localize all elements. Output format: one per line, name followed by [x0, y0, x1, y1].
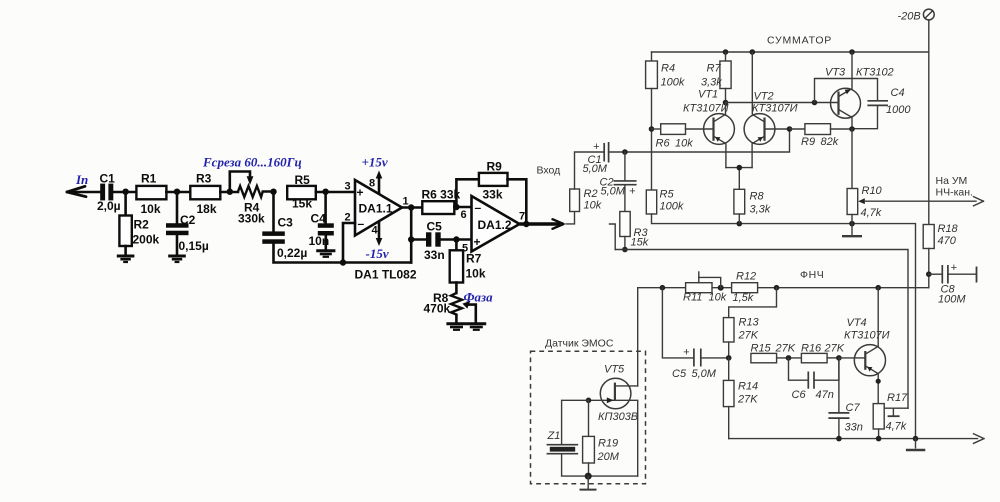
svg-text:ФНЧ: ФНЧ — [800, 269, 824, 281]
node C5 tap — [408, 236, 414, 242]
svg-text:3,3k: 3,3k — [701, 77, 722, 89]
svg-text:R19: R19 — [598, 438, 618, 450]
svg-text:СУММАТОР: СУММАТОР — [767, 35, 832, 47]
node pin6/R9 — [453, 204, 459, 210]
svg-text:82k: 82k — [821, 136, 839, 148]
svg-text:8: 8 — [369, 178, 375, 190]
bottom rail with arrow — [729, 434, 984, 444]
svg-text:КТ3107И: КТ3107И — [752, 103, 798, 115]
svg-text:10k: 10k — [709, 292, 727, 304]
resistor R6 10k — [652, 124, 714, 150]
resistor R10 4,7k (trimmer) — [847, 185, 983, 224]
wire C1 node to VT2 base — [609, 129, 790, 152]
svg-text:10k: 10k — [466, 267, 486, 281]
svg-text:–: – — [475, 201, 482, 215]
svg-text:КТ3102: КТ3102 — [856, 67, 894, 79]
node R4/R6/R5 — [649, 126, 655, 132]
transistor VT1 KT3107I — [683, 89, 734, 168]
resistor R7 3,3k — [701, 52, 731, 103]
svg-text:R9: R9 — [801, 136, 815, 148]
svg-text:КТ3107И: КТ3107И — [844, 330, 890, 342]
svg-text:0,15µ: 0,15µ — [179, 239, 209, 253]
resistor R9 82k — [790, 124, 853, 148]
node R9/output — [523, 221, 529, 227]
piezo Z1 — [547, 430, 579, 454]
svg-text:+: + — [683, 347, 690, 359]
svg-text:15k: 15k — [292, 197, 312, 211]
svg-text:27K: 27K — [775, 343, 796, 355]
svg-text:R7: R7 — [466, 252, 482, 266]
svg-text:R12: R12 — [736, 271, 756, 283]
svg-text:100k: 100k — [661, 77, 685, 89]
svg-text:3: 3 — [345, 181, 351, 193]
svg-text:VT5: VT5 — [604, 364, 625, 376]
svg-text:R2: R2 — [134, 218, 150, 232]
ground EMOS — [580, 476, 597, 490]
resistor R13 27K — [723, 317, 759, 358]
transistor VT2 KT3107I — [744, 52, 798, 168]
svg-text:R15: R15 — [751, 343, 772, 355]
svg-text:47n: 47n — [816, 389, 834, 401]
svg-text:33k: 33k — [483, 187, 503, 201]
potentiometer R8 470k + Faza — [424, 283, 494, 323]
node R8 bottom — [737, 221, 743, 227]
op-amp DA1.1 — [345, 178, 409, 237]
svg-text:Fсреза 60...160Гц: Fсреза 60...160Гц — [202, 154, 302, 169]
svg-text:470k: 470k — [424, 302, 451, 316]
svg-text:C4: C4 — [891, 87, 905, 99]
dashed box — [531, 351, 646, 484]
resistor R16 27K — [801, 343, 845, 363]
-15v supply arrow pin4 — [366, 223, 389, 262]
svg-text:100М: 100М — [938, 294, 966, 306]
svg-text:Вход: Вход — [537, 165, 561, 177]
capacitor C4 10n — [309, 192, 334, 248]
svg-text:10k: 10k — [141, 202, 161, 216]
node R18/C8 — [926, 271, 932, 277]
svg-text:200k: 200k — [133, 233, 160, 247]
supply terminal -20V — [898, 9, 935, 22]
node C5 branch — [660, 285, 666, 291]
node C1/C2 — [622, 149, 628, 155]
node R10 bottom — [849, 221, 855, 227]
output arrow to summator — [520, 219, 564, 229]
capacitor C2 — [166, 192, 209, 253]
ground bottom rail — [906, 439, 925, 450]
svg-text:-15v: -15v — [366, 246, 389, 261]
svg-text:R9: R9 — [487, 159, 503, 173]
node R15/C6 — [786, 355, 792, 361]
transistor VT4 KT3107I — [839, 288, 890, 404]
wire R4 to R6/R5 — [651, 89, 653, 191]
svg-text:6: 6 — [461, 209, 467, 221]
svg-text:Датчик ЭМОС: Датчик ЭМОС — [545, 338, 614, 350]
svg-text:100k: 100k — [660, 201, 684, 213]
svg-text:27K: 27K — [737, 394, 758, 406]
resistor R2 10k (sum input) — [566, 152, 603, 224]
capacitor C4 1000 — [852, 87, 911, 129]
svg-text:+15v: +15v — [362, 155, 388, 170]
wire R1 to R3 — [166, 191, 190, 194]
op-amp DA1.2 — [461, 196, 526, 255]
resistor R2 — [119, 192, 159, 247]
svg-text:R16: R16 — [801, 343, 822, 355]
FNCh top rail — [638, 288, 929, 386]
resistor R18 470 — [923, 223, 958, 288]
svg-text:R3: R3 — [196, 171, 212, 185]
svg-text:DA1 TL082: DA1 TL082 — [355, 268, 417, 282]
svg-text:R18: R18 — [938, 223, 959, 235]
svg-text:Z1: Z1 — [547, 430, 561, 442]
wire input stub — [610, 224, 616, 250]
svg-text:+: + — [951, 262, 958, 274]
svg-text:–: – — [358, 217, 365, 231]
resistor R3 — [190, 171, 220, 216]
node emitters — [737, 165, 743, 171]
svg-text:In: In — [75, 172, 88, 187]
wire R3 to R4 — [220, 191, 238, 194]
svg-text:Фаза: Фаза — [464, 290, 494, 305]
svg-text:C3: C3 — [278, 216, 294, 230]
resistor R15 27K — [751, 343, 802, 363]
svg-text:33n: 33n — [845, 422, 863, 434]
node R13/C5/R14/R15 — [726, 355, 732, 361]
svg-text:C5: C5 — [427, 219, 443, 233]
svg-text:10k: 10k — [584, 200, 602, 212]
node R3 bottom — [622, 247, 628, 253]
wire R12 node down to R13 — [729, 288, 777, 318]
wire Z1 bottom — [562, 454, 638, 476]
svg-text:DA1.2: DA1.2 — [478, 218, 512, 232]
svg-text:5,0М: 5,0М — [583, 163, 608, 175]
wire pin2 feedback — [343, 223, 355, 263]
ground under C4 — [316, 236, 335, 257]
node R12/R13 — [774, 285, 780, 291]
wire VT1 collector to VT3 base — [726, 102, 815, 104]
svg-text:20М: 20М — [597, 451, 620, 463]
resistor R7 10k — [450, 240, 486, 283]
svg-text:R17: R17 — [887, 392, 908, 404]
svg-text:3,3k: 3,3k — [750, 204, 771, 216]
svg-text:1,5k: 1,5k — [733, 292, 754, 304]
svg-text:1: 1 — [403, 196, 409, 208]
capacitor C8 100M — [929, 262, 977, 306]
wire common emitters — [726, 168, 752, 190]
node pin5/R7 — [453, 236, 459, 242]
svg-text:R10: R10 — [862, 185, 883, 197]
svg-text:+: + — [474, 235, 481, 249]
svg-text:R5: R5 — [660, 189, 675, 201]
potentiometer R11 10k — [683, 272, 727, 304]
node VT4 base — [836, 355, 842, 361]
capacitor C7 33n — [828, 358, 862, 439]
wire R5 to DA1.1 pin3 — [316, 191, 355, 194]
svg-text:C7: C7 — [846, 402, 861, 414]
svg-text:7: 7 — [519, 211, 525, 223]
capacitor C6 47n — [789, 358, 839, 401]
svg-text:DA1.1: DA1.1 — [359, 202, 393, 216]
node pin2/feedback — [340, 259, 346, 265]
svg-text:4,7k: 4,7k — [886, 421, 907, 433]
resistor R3 15k (sum) — [620, 185, 649, 250]
svg-text:C6: C6 — [792, 389, 807, 401]
svg-text:НЧ-кан.: НЧ-кан. — [936, 187, 973, 199]
node R1/R3/C2 — [174, 189, 180, 195]
node C7 bottom — [836, 436, 842, 442]
capacitor C3 — [262, 192, 307, 260]
capacitor C5 5,0M (fnch) — [662, 288, 728, 380]
wire output down to C5/feedback — [410, 208, 413, 263]
node VT5 gate — [586, 398, 592, 404]
svg-text:4,7k: 4,7k — [861, 207, 882, 219]
node R5/C4 — [322, 189, 328, 195]
svg-text:10k: 10k — [675, 138, 693, 150]
svg-text:C5: C5 — [672, 368, 687, 380]
wire VT3 base loop over top — [815, 79, 878, 103]
svg-text:R1: R1 — [141, 171, 157, 185]
svg-text:+: + — [629, 186, 636, 198]
svg-text:27K: 27K — [738, 330, 759, 342]
ground under C2 — [168, 235, 186, 262]
node R19 bottom — [585, 473, 592, 480]
svg-text:VT3: VT3 — [825, 67, 846, 79]
svg-text:33n: 33n — [424, 248, 445, 262]
svg-text:5,0М: 5,0М — [601, 186, 626, 198]
svg-text:R8: R8 — [750, 191, 765, 203]
resistor R17 4,7k (trimmer) — [873, 392, 908, 439]
resistor R6 33k — [422, 188, 461, 215]
resistor R5 100k — [646, 189, 684, 215]
svg-text:1000: 1000 — [886, 104, 911, 116]
ground under summator rail — [842, 224, 862, 237]
wire C1 to R1 — [113, 191, 136, 194]
svg-text:R6: R6 — [656, 138, 671, 150]
svg-text:VT1: VT1 — [698, 89, 718, 101]
resistor R1 — [136, 171, 166, 216]
svg-text:15k: 15k — [631, 237, 649, 249]
svg-text:470: 470 — [938, 235, 957, 247]
svg-text:VT4: VT4 — [847, 317, 867, 329]
resistor R5 — [287, 173, 316, 211]
node VT3 base — [812, 100, 818, 106]
node VT4 emitter — [875, 285, 881, 291]
svg-text:R14: R14 — [738, 381, 758, 393]
wire down to R10 — [851, 129, 853, 189]
node VT4 collector — [876, 379, 881, 384]
svg-text:18k: 18k — [197, 202, 217, 216]
wire C3 bottom to feedback line — [274, 244, 412, 263]
ground under R8 wiper — [466, 324, 486, 330]
svg-text:0,22µ: 0,22µ — [277, 246, 307, 260]
long rail R3 to R17 tap — [615, 250, 908, 409]
svg-text:КТ3107И: КТ3107И — [683, 103, 729, 115]
resistor R4 100k — [646, 52, 685, 89]
svg-text:5: 5 — [462, 243, 468, 255]
node VT3 emitter / R9 / C4 / R10 — [849, 126, 855, 132]
svg-text:27K: 27K — [824, 343, 845, 355]
svg-text:R11: R11 — [683, 292, 702, 304]
svg-text:R5: R5 — [295, 173, 311, 187]
capacitor C1 — [97, 171, 121, 213]
resistor R19 20M — [583, 400, 620, 476]
potentiometer R4 330k — [230, 172, 274, 226]
node rail/VT2 collector — [750, 49, 756, 55]
svg-text:R2: R2 — [584, 188, 598, 200]
node rail/R7 — [723, 49, 729, 55]
resistor R14 27K — [723, 358, 758, 439]
capacitor C2 5,0M (sum) — [600, 152, 637, 198]
svg-text:5,0M: 5,0M — [692, 368, 717, 380]
transistor VT3 KT3102 — [815, 52, 894, 129]
transistor VT5 KP303V — [589, 364, 639, 477]
svg-text:+: + — [357, 185, 364, 199]
node output — [408, 204, 414, 210]
top supply rail — [652, 51, 929, 53]
wire gate loop — [562, 400, 589, 444]
svg-text:C2: C2 — [180, 213, 196, 227]
node C1/R1/R2 — [122, 189, 128, 195]
svg-text:330k: 330k — [238, 212, 265, 226]
wire R6 to pin6 — [454, 206, 471, 209]
+15v supply arrow pin8 — [362, 155, 388, 193]
wire -20V vertical down to R18 — [928, 20, 930, 225]
svg-text:+: + — [593, 141, 600, 153]
wire output pin1 — [402, 206, 422, 209]
summator bottom rail — [652, 214, 916, 439]
resistor R8 3,3k — [734, 189, 771, 223]
node VT2 base / R9 — [787, 126, 793, 132]
node R11/R12 — [718, 285, 724, 291]
svg-text:-20В: -20В — [898, 11, 921, 23]
svg-text:C1: C1 — [100, 171, 116, 185]
svg-text:R4: R4 — [661, 63, 675, 75]
svg-text:КП303В: КП303В — [598, 411, 638, 423]
input arrow — [67, 186, 100, 196]
svg-text:R7: R7 — [707, 63, 722, 75]
resistor R12 1,5k — [732, 271, 758, 305]
node R17 bottom — [876, 436, 882, 442]
ground under R2 — [117, 246, 135, 262]
svg-text:На УМ: На УМ — [936, 175, 968, 187]
svg-text:2,0µ: 2,0µ — [97, 199, 121, 213]
svg-text:VT2: VT2 — [754, 91, 774, 103]
node VT1 collector / R7 — [723, 100, 729, 106]
svg-text:4: 4 — [372, 225, 379, 237]
capacitor C1 5,0M (sum) — [583, 141, 609, 175]
ground under R8 — [446, 316, 466, 330]
svg-text:R13: R13 — [739, 317, 760, 329]
resistor R9 33k feedback — [456, 159, 526, 224]
svg-text:R6 33k: R6 33k — [422, 188, 461, 202]
node R3/R4 loop — [227, 189, 233, 195]
node R4/R5/C3 — [270, 189, 276, 195]
node rail/VT3 — [849, 49, 855, 55]
node ground rail — [913, 436, 919, 442]
svg-text:C4: C4 — [311, 211, 327, 225]
capacitor C5 33n — [411, 219, 471, 261]
